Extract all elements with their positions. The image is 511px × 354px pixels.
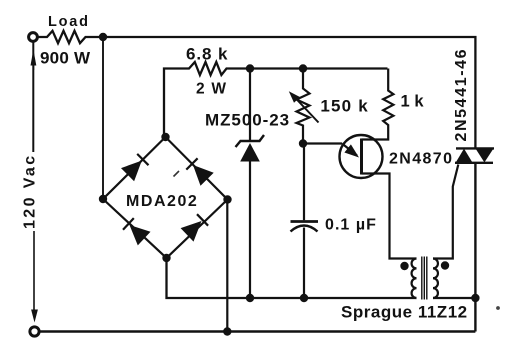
svg-text:0.1 µF: 0.1 µF: [325, 217, 377, 234]
svg-text:Load: Load: [48, 14, 90, 30]
svg-text:1 k: 1 k: [401, 93, 425, 111]
svg-text:Sprague 11Z12: Sprague 11Z12: [341, 302, 468, 321]
svg-text:MDA202: MDA202: [126, 193, 198, 210]
svg-text:900 W: 900 W: [40, 48, 91, 67]
svg-text:120 Vac: 120 Vac: [21, 153, 38, 229]
svg-text:6.8 k: 6.8 k: [186, 44, 228, 63]
svg-text:2N4870: 2N4870: [389, 151, 453, 168]
svg-text:2N5441-46: 2N5441-46: [453, 48, 470, 142]
svg-text:MZ500-23: MZ500-23: [205, 111, 290, 130]
svg-text:150 k: 150 k: [320, 96, 369, 115]
svg-text:2 W: 2 W: [196, 81, 227, 98]
